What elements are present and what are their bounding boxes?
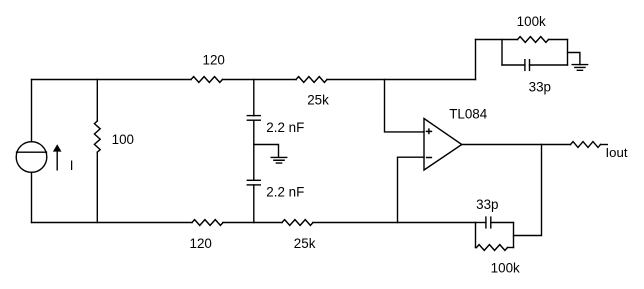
svg-text:100k: 100k (517, 14, 546, 29)
svg-text:TL084: TL084 (449, 106, 488, 121)
svg-text:100: 100 (112, 132, 134, 147)
svg-text:25k: 25k (307, 92, 329, 107)
svg-text:2.2 nF: 2.2 nF (266, 185, 304, 200)
svg-text:2.2 nF: 2.2 nF (266, 120, 304, 135)
svg-text:120: 120 (190, 236, 212, 251)
svg-text:33p: 33p (476, 197, 498, 212)
svg-text:100k: 100k (491, 261, 520, 276)
svg-text:25k: 25k (294, 236, 316, 251)
svg-text:33p: 33p (529, 80, 551, 95)
svg-text:120: 120 (203, 53, 225, 68)
svg-text:Iout: Iout (606, 145, 628, 160)
svg-text:I: I (70, 158, 74, 173)
